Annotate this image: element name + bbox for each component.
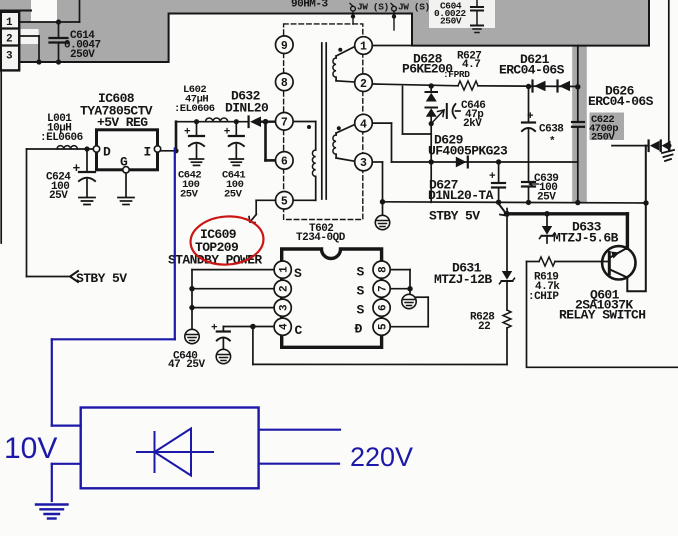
svg-text:RELAY SWITCH: RELAY SWITCH [559, 308, 645, 323]
svg-text:1: 1 [6, 17, 13, 29]
svg-text:25V: 25V [224, 189, 243, 201]
svg-text:25V: 25V [49, 190, 68, 202]
svg-text:1: 1 [279, 266, 291, 273]
svg-text:+: + [73, 161, 81, 176]
svg-text:47 25V: 47 25V [168, 359, 206, 371]
svg-text:D: D [103, 145, 111, 160]
svg-text:JW (S): JW (S) [357, 2, 389, 13]
svg-text:4: 4 [279, 323, 291, 330]
svg-text:JW (S): JW (S) [398, 2, 430, 13]
svg-text:25V: 25V [180, 189, 199, 201]
svg-text:+5V REG: +5V REG [97, 115, 148, 130]
svg-text:7: 7 [377, 285, 389, 292]
svg-text:25V: 25V [537, 192, 556, 204]
svg-text::CHIP: :CHIP [528, 291, 559, 303]
svg-text::EL0606: :EL0606 [40, 132, 83, 144]
svg-text:+: + [184, 127, 191, 139]
svg-text:S: S [294, 266, 302, 281]
svg-text:90HM-3: 90HM-3 [291, 0, 329, 11]
svg-text:STBY 5V: STBY 5V [76, 271, 127, 286]
svg-text:G: G [120, 155, 128, 170]
svg-text:I: I [144, 145, 151, 160]
svg-text:+: + [527, 111, 534, 123]
svg-text::FPRD: :FPRD [443, 69, 470, 80]
svg-text:5: 5 [377, 323, 389, 330]
svg-text:2kV: 2kV [463, 118, 482, 130]
svg-text:+: + [489, 171, 496, 183]
svg-text:MTZJ-12B: MTZJ-12B [434, 272, 492, 287]
svg-text:Đ: Đ [355, 322, 363, 337]
svg-text:S: S [357, 265, 365, 280]
svg-text:250V: 250V [70, 49, 95, 61]
svg-text:4: 4 [360, 118, 367, 131]
svg-text:C: C [295, 323, 303, 338]
svg-text:5: 5 [281, 196, 288, 209]
svg-text:8: 8 [281, 77, 288, 90]
svg-text:7: 7 [281, 117, 288, 130]
svg-text:UF4005PKG23: UF4005PKG23 [428, 144, 508, 159]
svg-text:6: 6 [281, 156, 288, 169]
svg-text:ERC04-06S: ERC04-06S [499, 63, 565, 78]
svg-text:22: 22 [478, 321, 490, 333]
svg-text:9: 9 [281, 40, 288, 53]
svg-text:6: 6 [377, 304, 389, 311]
svg-text:1: 1 [360, 41, 367, 54]
svg-text:*: * [549, 136, 555, 148]
svg-text:MTZJ-5.6B: MTZJ-5.6B [553, 231, 619, 246]
svg-text:2: 2 [6, 34, 12, 46]
svg-text:STBY 5V: STBY 5V [429, 209, 480, 224]
svg-text:D1NL20-TA: D1NL20-TA [428, 188, 494, 203]
svg-text:C638: C638 [539, 124, 564, 136]
svg-text:+: + [224, 127, 231, 139]
svg-text:220V: 220V [350, 442, 413, 472]
svg-text:3: 3 [360, 157, 367, 170]
svg-text:2: 2 [279, 285, 291, 292]
svg-text:2: 2 [360, 78, 367, 91]
svg-text::EL0606: :EL0606 [174, 103, 215, 115]
svg-text:T234-0QD: T234-0QD [296, 232, 346, 244]
svg-text:+: + [211, 323, 218, 335]
svg-text:S: S [357, 284, 365, 299]
svg-text:3: 3 [279, 304, 291, 311]
svg-text:10V: 10V [4, 432, 57, 465]
svg-text:3: 3 [6, 51, 13, 63]
svg-text:250V: 250V [440, 16, 462, 27]
svg-text:S: S [357, 303, 365, 318]
svg-text:DINL20: DINL20 [225, 101, 269, 116]
svg-text:250V: 250V [591, 132, 615, 144]
svg-text:ERC04-06S: ERC04-06S [588, 94, 654, 109]
svg-text:8: 8 [377, 266, 389, 273]
